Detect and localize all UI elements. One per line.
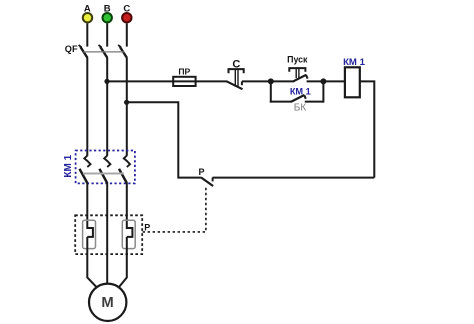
terminal B lamp <box>103 3 112 22</box>
thermal relay box (dashed) <box>75 215 142 254</box>
KM1 main contact pole 3 <box>119 156 130 183</box>
return wire left segment <box>127 102 201 177</box>
terminal A lamp <box>83 4 92 23</box>
contactor coil KM1 <box>343 57 366 97</box>
svg-text:C: C <box>123 4 130 15</box>
wire phase A top <box>86 23 88 46</box>
thermal relay heater phase A <box>83 220 96 248</box>
wire phase A lower <box>86 183 88 229</box>
KM1 main contact pole 1 <box>80 156 91 183</box>
terminal C lamp <box>122 4 131 23</box>
wire phase C lower <box>126 183 128 229</box>
node right of parallel group <box>320 78 326 84</box>
breaker QF pole 1 <box>79 45 88 58</box>
svg-text:КМ 1: КМ 1 <box>343 57 366 68</box>
KM1 linkage bar <box>83 173 124 175</box>
svg-text:A: A <box>84 4 91 15</box>
svg-text:P: P <box>198 167 204 177</box>
auxiliary contact KM1 (BK) branch <box>270 81 324 113</box>
thermal relay NC contact P <box>198 167 213 186</box>
breaker QF pole 3 <box>118 45 127 58</box>
KM1 main contact pole 2 <box>99 156 110 183</box>
contactor KM1 main-contact box (dashed) <box>63 151 135 184</box>
svg-text:КМ 1: КМ 1 <box>63 154 74 177</box>
fuse PR <box>173 66 195 86</box>
svg-text:КМ 1: КМ 1 <box>290 87 311 97</box>
wire phase C mid <box>126 57 128 155</box>
svg-text:БК: БК <box>294 103 307 114</box>
svg-text:M: M <box>101 295 113 311</box>
breaker QF pole 2 <box>99 45 108 58</box>
dashed mechanical link from thermal relay to contact P <box>143 187 206 232</box>
node left of start-button parallel group <box>268 78 274 84</box>
node C (junction dot) <box>124 100 129 105</box>
wire node to coil <box>323 80 345 82</box>
start button Пуск (NO pushbutton) <box>271 55 324 82</box>
wire stop button to node <box>242 80 271 82</box>
wire phase B top <box>106 23 108 46</box>
wire control from node B to fuse and stop button <box>107 80 227 82</box>
breaker QF linkage bar <box>83 51 124 53</box>
svg-text:QF: QF <box>65 44 78 54</box>
wire phase C top <box>126 23 128 46</box>
thermal relay heater phase C <box>122 220 135 248</box>
node B (junction dot) <box>104 79 109 84</box>
svg-text:P: P <box>144 222 150 232</box>
stop button C (NC pushbutton) <box>226 59 243 90</box>
return wire right segment <box>213 177 375 179</box>
wire phase A lead to motor <box>87 237 96 287</box>
wire phase B lower <box>106 183 108 284</box>
wire phase C lead to motor <box>119 237 127 287</box>
svg-text:B: B <box>104 3 111 14</box>
wire coil to right drop <box>360 81 375 177</box>
wire phase B mid <box>106 57 108 155</box>
motor M <box>89 284 126 321</box>
svg-text:Пуск: Пуск <box>287 55 308 65</box>
wire phase A mid <box>86 57 88 155</box>
svg-text:ПР: ПР <box>178 66 190 76</box>
